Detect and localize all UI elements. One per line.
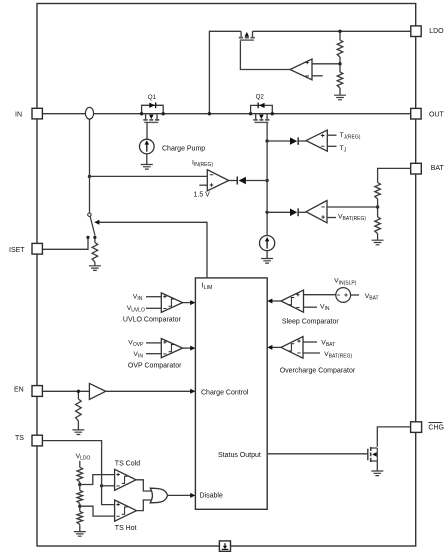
wire TS cold output to OR <box>136 480 152 491</box>
wire UVLO output <box>183 302 191 304</box>
svg-text:VIN: VIN <box>133 293 143 302</box>
wire IIN opamp out to diode <box>229 180 237 182</box>
wire LDO opamp ref stub <box>312 75 323 77</box>
svg-text:Q1: Q1 <box>148 94 157 101</box>
arrowhead sleep comp to block <box>267 299 272 304</box>
svg-text:Disable: Disable <box>200 493 223 500</box>
wire OR output to disable <box>167 494 190 496</box>
op-amp TJ <box>306 130 327 151</box>
wire chain node2 jog to TS hot minus <box>80 506 115 516</box>
wire LDO opamp gate path <box>240 41 290 70</box>
charge pump current source <box>140 139 155 154</box>
svg-text:IN: IN <box>15 111 22 118</box>
ground TS chain <box>74 532 86 537</box>
LDO pass transistor <box>241 31 252 37</box>
wire LDO divider to ground <box>339 88 341 95</box>
ground ISET resistor <box>89 266 101 271</box>
svg-text:VBAT(REG): VBAT(REG) <box>338 213 366 222</box>
pin OUT <box>411 108 421 119</box>
charge control block <box>195 278 267 509</box>
svg-text:ISET: ISET <box>9 247 25 254</box>
TJ clamp diode <box>290 137 297 144</box>
pin LDO <box>411 26 421 37</box>
resistor LDO divider lower <box>337 72 343 88</box>
pin EN <box>32 386 42 397</box>
svg-text:VBAT: VBAT <box>365 293 379 302</box>
wire TS pin right and down <box>42 441 114 505</box>
wire ISET pin to left contact <box>42 238 88 249</box>
wire LDO feed vertical <box>209 31 241 113</box>
wire Q1 gate to charge pump <box>146 123 148 140</box>
wire switch right contact to resistor <box>94 238 96 242</box>
wire TJ clamp: gate node to diode <box>267 140 290 142</box>
svg-text:Status Output: Status Output <box>218 452 261 459</box>
wire sense line down from oval <box>89 119 91 213</box>
wire BAT divider segments <box>377 199 379 217</box>
resistor EN pulldown <box>76 399 82 421</box>
wire VBATREG opamp top input to divider node <box>327 206 378 208</box>
wire TS hot output to OR <box>137 500 152 511</box>
wire BAT pin to divider <box>378 168 411 182</box>
transistor Q2 body diode loop <box>251 105 273 113</box>
svg-text:VBAT: VBAT <box>321 339 335 348</box>
ground LDO divider <box>334 95 346 100</box>
wire sleep comp top input to source <box>304 294 336 296</box>
wire UVLO VIN input <box>146 296 161 298</box>
transistor Q1 body diode <box>149 103 155 108</box>
wire TS cold minus tap <box>102 485 115 487</box>
arrowhead ILIM control to switch <box>94 220 99 225</box>
resistor TS chain bottom <box>77 511 83 524</box>
wire TJ stub <box>327 145 336 147</box>
resistor ISET internal <box>92 243 98 263</box>
svg-text:Q2: Q2 <box>256 94 265 101</box>
svg-text:CHG: CHG <box>428 424 444 431</box>
EN input buffer <box>89 383 105 399</box>
wire VBATREG clamp: gate node to diode <box>267 211 290 213</box>
op-amp VBAT(REG) <box>306 201 327 223</box>
wire chain to ground <box>79 525 81 532</box>
wire VBATREG diode to opamp <box>299 211 306 213</box>
comparator overcharge <box>281 337 303 359</box>
arrowhead overcharge comp to block <box>267 345 272 350</box>
svg-text:TS: TS <box>15 435 24 442</box>
wire Q2 gate line down <box>266 123 268 236</box>
transistor Q1 body diode loop <box>142 105 164 113</box>
wire UVLO VUVLO input <box>146 307 161 309</box>
resistor TS chain top <box>77 467 83 482</box>
ground EN resistor <box>72 430 84 435</box>
wire IIN- sense to opamp <box>90 175 208 177</box>
svg-text:TJ(REG): TJ(REG) <box>340 132 361 141</box>
pin ISET <box>32 243 42 254</box>
resistor BAT divider upper <box>375 183 381 200</box>
svg-text:OUT: OUT <box>429 111 445 118</box>
wire TJREG stub <box>327 134 336 136</box>
wire sleep source to VBAT label <box>351 294 359 296</box>
svg-text:TS Hot: TS Hot <box>115 525 137 532</box>
svg-text:Overcharge Comparator: Overcharge Comparator <box>280 367 356 374</box>
svg-text:BAT: BAT <box>431 165 445 172</box>
svg-text:IIN(REG): IIN(REG) <box>192 160 213 169</box>
pin IN <box>32 108 42 119</box>
svg-text:VUVLO: VUVLO <box>127 305 145 314</box>
wire chain node1 jog to TS cold plus <box>80 475 115 485</box>
wire IIN opamp 1p5V stub <box>199 184 207 186</box>
wire EN buffer to charge control <box>106 390 194 392</box>
arrowhead OR to disable <box>190 493 195 498</box>
wire main rail IN to OUT <box>42 113 411 115</box>
arrowhead UVLO to block <box>190 300 195 305</box>
resistor TS chain middle <box>77 490 83 503</box>
wire OVP VIN input <box>146 353 161 355</box>
svg-text:TS Cold: TS Cold <box>115 460 140 467</box>
gate pulldown current source <box>260 236 275 251</box>
comparator TS cold <box>115 469 136 490</box>
transistor Q2 <box>256 114 267 120</box>
svg-text:1.5 V: 1.5 V <box>194 191 211 198</box>
svg-text:TJ: TJ <box>340 145 347 154</box>
arrowhead EN to charge control <box>190 389 195 394</box>
pin VSS <box>219 541 230 551</box>
VBAT(REG) clamp diode <box>290 209 297 217</box>
ISET switch <box>88 213 91 216</box>
ground status nmos <box>371 471 383 476</box>
svg-text:VOVP: VOVP <box>128 340 144 349</box>
resistor LDO divider upper <box>337 40 343 57</box>
wire overcharge output <box>272 346 281 348</box>
wire sleep comp output <box>272 300 281 302</box>
wire EN pin to buffer <box>42 390 89 392</box>
wire VLDO chain top <box>79 461 81 468</box>
arrowhead OVP to block <box>190 346 195 351</box>
wire LDO divider mid to opamp <box>339 57 341 72</box>
svg-text:VLDO: VLDO <box>76 453 91 462</box>
svg-text:Charge Pump: Charge Pump <box>162 145 205 152</box>
resistor BAT divider lower <box>375 217 381 234</box>
IIN(REG) diode <box>237 177 238 185</box>
wire charge pump to ground <box>146 154 148 165</box>
svg-text:VIN: VIN <box>320 304 330 313</box>
wire IIN diode to gate node <box>246 180 267 182</box>
ground charge pump <box>141 165 153 170</box>
wire ISET resistor to ground <box>94 262 96 266</box>
wire ILIM control to switch <box>100 222 208 278</box>
pin TS <box>32 435 42 446</box>
status output nmos Q3 <box>367 449 369 461</box>
transistor Q2 body diode <box>259 103 265 108</box>
pin BAT <box>411 163 422 174</box>
svg-text:VIN: VIN <box>133 351 143 360</box>
svg-text:EN: EN <box>14 386 24 393</box>
wire sleep comp VIN stub <box>304 306 318 308</box>
svg-text:Charge Control: Charge Control <box>201 390 249 397</box>
IN current sense oval <box>85 107 93 119</box>
comparator UVLO <box>161 293 182 313</box>
ground BAT divider <box>372 240 384 245</box>
svg-text:LDO: LDO <box>429 28 444 35</box>
op-amp LDO error amp <box>290 59 312 80</box>
wire VBATREG opamp ref stub <box>327 217 336 219</box>
ground gate current source <box>261 259 273 264</box>
wire current source to ground <box>266 251 268 259</box>
svg-text:VIN(SLP): VIN(SLP) <box>334 278 357 287</box>
wire TJ diode to opamp <box>299 140 306 142</box>
wire nmos source to ground <box>376 462 378 472</box>
wire chain mid segments <box>79 482 81 490</box>
wire status output to nmos gate <box>267 453 367 455</box>
svg-text:OVP Comparator: OVP Comparator <box>128 363 182 370</box>
wire overcharge VBAT stub <box>303 341 317 343</box>
sleep offset source <box>336 288 351 303</box>
wire overcharge VBATREG stub <box>303 352 320 354</box>
wire OVP VOVP input <box>146 342 161 344</box>
wire EN pulldown resistor leads <box>77 391 79 399</box>
pin CHG <box>411 422 422 433</box>
wire LDO fet drain to LDO pin <box>253 30 411 32</box>
wire OVP output <box>183 347 191 349</box>
transistor Q1 <box>146 114 157 120</box>
svg-text:Sleep Comparator: Sleep Comparator <box>282 319 339 326</box>
comparator OVP <box>161 339 182 358</box>
comparator sleep <box>281 290 304 312</box>
comparator TS hot <box>115 500 137 521</box>
op-amp IIN(REG) <box>207 170 228 191</box>
wire LDO divider feed <box>339 31 341 40</box>
svg-text:UVLO Comparator: UVLO Comparator <box>123 317 182 324</box>
wire nmos drain to CHG pin <box>377 427 410 447</box>
VSS pin ground arrow <box>224 543 226 546</box>
svg-text:VBAT(REG): VBAT(REG) <box>324 351 352 360</box>
OR gate disable logic <box>150 488 167 503</box>
